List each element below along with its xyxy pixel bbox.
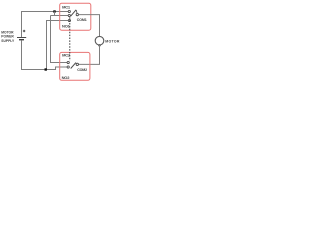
wire vertical from MC1 middle feed down to MC2 upper terminal	[51, 16, 68, 63]
node junction dot on bottom rail	[45, 68, 47, 70]
relay box MC2 (red outline)	[60, 52, 90, 80]
mechanical linkage dashed line	[69, 17, 71, 61]
wire motor bottom to COM2	[79, 45, 100, 64]
wire battery negative down and bottom rail to MC2 lower contact	[22, 40, 68, 69]
switch arm MC2	[71, 63, 76, 69]
common terminal COM2	[76, 63, 78, 65]
common terminal COM1	[76, 13, 78, 15]
relay box MC1 (red outline)	[60, 3, 91, 30]
wire COM1 to motor top	[79, 15, 100, 37]
svg-text:MC1: MC1	[62, 4, 71, 9]
plus polarity mark	[23, 30, 25, 32]
svg-text:SUPPLY: SUPPLY	[1, 39, 15, 43]
node motor bottom terminal	[98, 44, 100, 46]
wire MC1 lower terminal down to bottom rail	[47, 21, 69, 70]
svg-text:NO1: NO1	[62, 24, 71, 29]
node junction dot on top rail	[53, 10, 55, 12]
wire battery positive riser and top rail	[22, 12, 69, 38]
contact terminals MC1	[68, 10, 70, 12]
svg-text:COM2: COM2	[77, 68, 87, 72]
svg-text:MOTOR: MOTOR	[105, 40, 120, 44]
arm pivot link MC1	[75, 10, 78, 13]
battery B1 plates	[17, 38, 26, 40]
svg-text:NO2: NO2	[62, 75, 71, 80]
contact terminals MC2	[67, 61, 69, 63]
motor M1	[95, 36, 104, 45]
wire from top dot down to MC1 middle terminal	[51, 12, 55, 16]
switch arm MC1	[71, 10, 77, 16]
svg-text:COM1: COM1	[77, 18, 87, 22]
label MOTOR POWER SUPPLY	[1, 30, 15, 43]
